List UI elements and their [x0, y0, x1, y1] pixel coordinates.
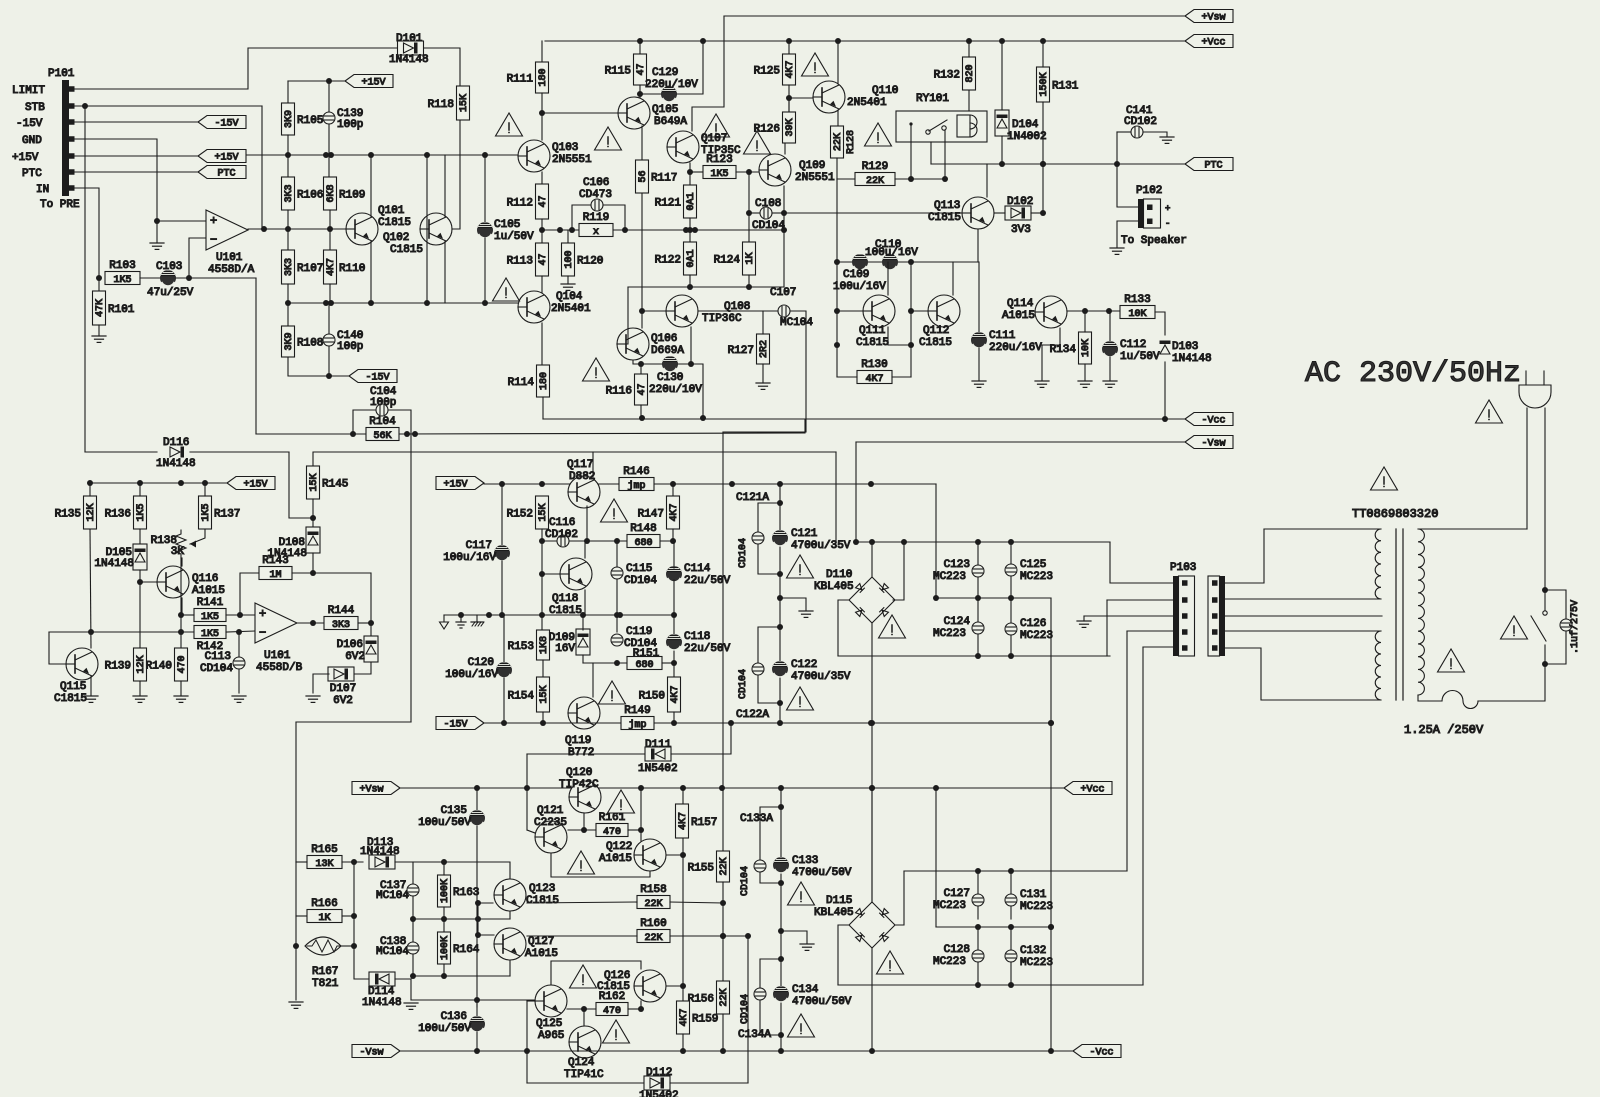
resistor R113 [507, 243, 550, 276]
svg-text:220u/16V: 220u/16V [989, 342, 1042, 354]
junction [720, 933, 726, 939]
svg-text:1K: 1K [318, 913, 330, 924]
svg-text:R154: R154 [508, 691, 535, 703]
svg-text:D116: D116 [163, 437, 189, 449]
junction [777, 595, 783, 601]
junction [700, 415, 706, 421]
wire P103 p4 [1127, 630, 1173, 632]
junction [539, 110, 545, 116]
wire Q102 e [444, 241, 446, 303]
svg-text:PTC: PTC [1204, 161, 1222, 172]
wire D112 feed [527, 1082, 645, 1084]
junction [639, 415, 645, 421]
ground G3 [561, 284, 575, 290]
wire bridge115 right [893, 871, 904, 925]
junction [778, 1048, 784, 1054]
wire R163 top [443, 862, 445, 875]
wire D111 r [671, 723, 731, 754]
wire R128 col down [836, 179, 838, 377]
transistor Q120 [559, 767, 601, 813]
wire R124 bot [748, 275, 750, 287]
diode D111 [638, 739, 678, 775]
wire C129 right [677, 41, 703, 94]
wire D115 bot [871, 948, 873, 1051]
wire D106 bot [353, 662, 371, 674]
wire C117 top [501, 484, 503, 545]
junction [351, 913, 357, 919]
capacitor C136 [418, 1011, 485, 1035]
svg-text:15K: 15K [459, 94, 470, 112]
wire R105 bot [287, 135, 289, 177]
wire C120 t2 [503, 615, 505, 662]
svg-text:TT0869803320: TT0869803320 [1352, 507, 1438, 521]
junction [285, 226, 291, 232]
svg-text:R146: R146 [623, 466, 649, 478]
junction [237, 612, 243, 618]
resistor R126 [754, 112, 797, 143]
wire x723 drop [722, 432, 724, 788]
transistor Q107 [667, 131, 741, 163]
AC plug [1519, 371, 1551, 408]
capacitor C113 [200, 651, 245, 675]
net flag -Vcc low [1073, 1045, 1121, 1059]
svg-text:R145: R145 [322, 479, 348, 491]
svg-text:D103: D103 [1172, 341, 1198, 353]
wire Q118 e [584, 590, 586, 615]
wire R137 top [204, 483, 206, 496]
wire R158 r [670, 902, 723, 903]
warning symbol W18 [788, 882, 815, 905]
wire R163 bot [443, 907, 445, 932]
junction [975, 868, 981, 874]
junction [720, 933, 726, 939]
junction [323, 152, 329, 158]
switch SW1 [1531, 590, 1547, 664]
wire C134c top [760, 959, 781, 988]
wire Q111 e [888, 327, 911, 345]
resistor R158 [637, 884, 670, 910]
resistor R142 [194, 626, 226, 654]
svg-text:C121: C121 [791, 528, 818, 540]
svg-text:+: + [210, 214, 217, 228]
wire xfmr p3 [1225, 615, 1382, 617]
svg-text:Q127: Q127 [528, 936, 554, 948]
wire bridge bot [871, 623, 873, 902]
wire fuse-switch [1478, 664, 1545, 701]
svg-text:R121: R121 [655, 198, 682, 210]
ground G1 [150, 243, 164, 249]
junction [637, 38, 643, 44]
wire P103 p1 [1110, 542, 1173, 583]
wire cap sw top [1545, 590, 1566, 619]
svg-text:4700u/35V: 4700u/35V [791, 671, 851, 683]
wire +Vsw rail [724, 15, 1185, 17]
wire C135 col [476, 788, 478, 810]
junction [908, 342, 914, 348]
svg-text:22u/50V: 22u/50V [684, 575, 731, 587]
junction [777, 720, 783, 726]
junction [746, 210, 752, 216]
transistor Q103 [518, 140, 592, 172]
label MC104b [376, 946, 409, 958]
warning symbol W20 [570, 965, 597, 988]
wire C126 bot [1010, 635, 1012, 656]
svg-text:C135: C135 [441, 805, 467, 817]
capacitor C132 [1005, 945, 1053, 969]
wire C140 bot [328, 346, 330, 376]
svg-text:+: + [259, 607, 266, 621]
wire IN pin [74, 188, 99, 278]
resistor R107 [282, 250, 324, 284]
svg-text:R119: R119 [583, 212, 609, 224]
wire D116 row [85, 451, 157, 453]
wire R162 r [628, 1008, 641, 1010]
wire Q115 e gnd [90, 676, 92, 696]
capacitor C131 [1005, 889, 1053, 913]
junction [441, 916, 447, 922]
svg-text:Q124: Q124 [568, 1057, 595, 1069]
svg-text:100u/16V: 100u/16V [833, 281, 886, 293]
svg-text:D882: D882 [569, 471, 595, 483]
junction [482, 300, 488, 306]
wire xfmr p4 [1225, 630, 1363, 632]
svg-text:MC223: MC223 [1020, 571, 1053, 583]
svg-text:To PRE: To PRE [40, 199, 80, 211]
svg-text:R149: R149 [624, 705, 650, 717]
net flag +Vsw low [352, 782, 400, 796]
junction [778, 928, 784, 934]
wire R167 r [341, 945, 354, 947]
junction [719, 785, 725, 791]
junction [1542, 587, 1548, 593]
svg-text:56K: 56K [373, 431, 391, 442]
junction [499, 481, 505, 487]
svg-text:4K7: 4K7 [785, 60, 796, 78]
wire D102 l [994, 212, 1005, 214]
svg-text:100K: 100K [440, 936, 451, 960]
junction [680, 852, 686, 858]
wire C135 bot [476, 826, 478, 1007]
wire y656 row [838, 655, 1110, 657]
wire x371 d106 [370, 573, 372, 637]
wire Q111 base [837, 310, 863, 312]
svg-text:PTC: PTC [217, 169, 235, 180]
svg-text:R108: R108 [297, 338, 323, 350]
junction [778, 804, 784, 810]
svg-text:2N5551: 2N5551 [552, 154, 592, 166]
junction [524, 785, 530, 791]
wire +Vcc rail [545, 40, 1185, 42]
wire R155 stub [722, 788, 724, 851]
wire xfmr p2 [1225, 598, 1363, 600]
svg-text:CD102: CD102 [1124, 116, 1157, 128]
wire Q104 e [541, 323, 543, 365]
net flag +Vsw [1185, 10, 1233, 24]
wire C112 top [1109, 311, 1111, 341]
resistor R110 [324, 250, 366, 284]
node C133A [740, 813, 773, 825]
label C137 [380, 880, 406, 892]
wire y287 row [628, 286, 784, 288]
wire R103-C103 [140, 277, 160, 279]
capacitor C119 [611, 626, 657, 650]
svg-text:-Vsw: -Vsw [1201, 439, 1225, 450]
resistor R156 [688, 981, 731, 1014]
svg-text:2N5551: 2N5551 [795, 172, 835, 184]
wire R130 r [892, 376, 911, 378]
wire R132 top [968, 41, 970, 57]
svg-text:4700u/50V: 4700u/50V [792, 996, 852, 1008]
capacitor C138 [407, 942, 419, 954]
wire Q102 base [452, 120, 460, 229]
svg-text:C124: C124 [944, 616, 971, 628]
wire R110 bot [329, 284, 331, 303]
warning symbol W22 [877, 951, 904, 974]
svg-text:R147: R147 [638, 509, 664, 521]
wire Q110 e [837, 110, 839, 126]
resistor R157 [676, 804, 718, 838]
svg-text:R107: R107 [297, 263, 323, 275]
junction [687, 169, 693, 175]
svg-text:Q121: Q121 [537, 805, 564, 817]
wire R144 r [358, 622, 371, 624]
svg-text:-Vcc: -Vcc [1201, 416, 1225, 427]
junction [137, 579, 143, 585]
junction [404, 431, 410, 437]
svg-text:C123: C123 [944, 559, 970, 571]
transformer T1 [1352, 507, 1438, 700]
svg-text:6V2: 6V2 [345, 651, 365, 663]
svg-text:4K7: 4K7 [326, 258, 337, 276]
junction [835, 38, 841, 44]
resistor R108 [282, 326, 324, 357]
svg-text:R161: R161 [599, 812, 626, 824]
wire D108 bot [312, 553, 314, 573]
wire R131 bot [1042, 102, 1044, 213]
wire P103 p2 down [1106, 600, 1108, 656]
svg-text:22K: 22K [719, 857, 730, 875]
junction [869, 785, 875, 791]
diode D104 [995, 110, 1047, 143]
svg-text:15K: 15K [539, 685, 550, 703]
wire x911 [910, 262, 912, 377]
svg-text:R128: R128 [846, 130, 857, 154]
connector P103 mate [1208, 576, 1225, 656]
svg-text:Q125: Q125 [536, 1018, 562, 1030]
net flag -Vsw [1185, 436, 1233, 450]
node C122A [736, 709, 769, 721]
wire D104 bot [1001, 136, 1003, 164]
resistor R119 [579, 212, 613, 238]
wire C123 bot [977, 577, 979, 622]
ground G21 [800, 944, 814, 950]
capacitor C118 [666, 631, 731, 655]
junction [933, 595, 939, 601]
junction [638, 785, 644, 791]
svg-text:R136: R136 [105, 509, 131, 521]
junction [670, 481, 676, 487]
wire Q113 e [977, 229, 979, 262]
junction [639, 308, 645, 314]
svg-text:R123: R123 [706, 154, 732, 166]
junction [154, 218, 160, 224]
svg-text:.1uf/275V: .1uf/275V [1569, 600, 1581, 654]
junction [975, 982, 981, 988]
capacitor C114 [666, 563, 731, 587]
svg-text:R152: R152 [507, 509, 533, 521]
junction [1008, 868, 1014, 874]
label CD104 C121 [738, 538, 749, 568]
capacitor C135 [418, 805, 485, 829]
resistor R153 [508, 630, 551, 660]
wire R151 r [662, 662, 674, 664]
junction [580, 612, 586, 618]
diode D107 [328, 667, 356, 707]
wire Q108 base [642, 310, 666, 312]
wire R143 r [292, 572, 370, 574]
svg-text:D102: D102 [1007, 196, 1033, 208]
junction [617, 612, 623, 618]
resistor R134 [1050, 332, 1093, 364]
junction [524, 1048, 530, 1054]
svg-text:220u/10V: 220u/10V [645, 79, 698, 91]
wire -Vsw low bus [400, 1050, 1073, 1052]
svg-text:R103: R103 [109, 260, 135, 272]
junction [720, 900, 726, 906]
junction [88, 629, 94, 635]
bridge rectifier D110 [814, 569, 895, 623]
resistor R122 [655, 242, 698, 275]
svg-text:R139: R139 [105, 661, 131, 673]
wire y262 row [838, 261, 978, 263]
junction [557, 227, 563, 233]
svg-text:Q106: Q106 [651, 333, 677, 345]
wire y311 right [1067, 310, 1120, 312]
svg-text:Q101: Q101 [378, 205, 405, 217]
wire C105 bot [484, 238, 486, 303]
wire Q115 base [49, 632, 66, 664]
svg-text:39K: 39K [785, 118, 796, 136]
svg-text:C1815: C1815 [919, 337, 952, 349]
svg-text:C109: C109 [843, 269, 869, 281]
wire C121 col [779, 484, 781, 723]
svg-text:CD104: CD104 [738, 538, 749, 568]
svg-text:C133: C133 [792, 855, 818, 867]
wire gnd stub C133 [781, 931, 807, 944]
wire C103-U101 [176, 277, 256, 279]
wire C138 bot [412, 954, 414, 976]
svg-text:C105: C105 [494, 219, 520, 231]
wire Q116 base [140, 581, 157, 583]
svg-text:C1815: C1815 [856, 337, 889, 349]
wire R154 bot [542, 712, 544, 723]
junction [671, 660, 677, 666]
junction [539, 538, 545, 544]
svg-text:4K7: 4K7 [669, 503, 680, 521]
svg-text:+15V: +15V [12, 152, 39, 164]
warning symbol W16 [608, 790, 635, 813]
wire R111-Q103 [541, 93, 543, 140]
svg-text:C134A: C134A [738, 1029, 771, 1041]
wire R143 col [240, 573, 259, 615]
resistor R148 [627, 523, 660, 549]
junction [1008, 924, 1014, 930]
svg-text:CD104: CD104 [738, 669, 749, 699]
svg-text:−: − [210, 233, 217, 247]
wire R159 bot [682, 1034, 684, 1051]
junction [638, 361, 644, 367]
junction [285, 300, 291, 306]
wire relay pin1 [910, 124, 912, 179]
capacitor C106 [579, 177, 612, 211]
junction [584, 538, 590, 544]
wire R123 r [736, 171, 759, 173]
wire y598 row [936, 597, 1051, 599]
junction [236, 629, 242, 635]
wire -Vsw bus [856, 441, 1185, 443]
transistor Q116 [157, 566, 225, 598]
resistor R124 [714, 242, 757, 275]
svg-text:R116: R116 [606, 386, 632, 398]
wire R156 bot [722, 1014, 724, 1051]
transistor Q111 [856, 295, 895, 349]
wire +15V mid row [484, 483, 936, 485]
wire y434 bus [256, 433, 366, 435]
wire R127 top2 [762, 311, 764, 334]
svg-text:C1815: C1815 [54, 693, 87, 705]
wire Q113 c [986, 164, 988, 197]
transistor Q105 [618, 97, 687, 129]
svg-text:P101: P101 [48, 68, 75, 80]
junction [1008, 595, 1014, 601]
wire bridge right [893, 542, 904, 600]
junction [869, 1048, 875, 1054]
wire y542 main [856, 541, 1110, 543]
svg-text:100u/50V: 100u/50V [418, 1023, 471, 1035]
wire R129 l [837, 178, 855, 180]
resistor R133 [1120, 294, 1155, 320]
svg-text:RY101: RY101 [916, 93, 949, 105]
label CD104 C133 [740, 866, 751, 896]
svg-text:-15V: -15V [365, 373, 389, 384]
svg-text:U101: U101 [264, 650, 291, 662]
junction [622, 227, 628, 233]
svg-text:R122: R122 [655, 255, 681, 267]
resistor R103 [105, 260, 140, 286]
svg-text:220u/10V: 220u/10V [649, 384, 702, 396]
warning symbol W14 [1371, 467, 1398, 490]
junction [441, 859, 447, 865]
wire C106 r [603, 205, 625, 230]
svg-text:47: 47 [538, 195, 549, 207]
junction [87, 480, 93, 486]
resistor R163 [438, 875, 480, 907]
svg-text:56: 56 [638, 170, 649, 182]
junction [1040, 210, 1046, 216]
svg-text:470: 470 [603, 827, 621, 838]
svg-text:3K9: 3K9 [284, 332, 295, 350]
svg-text:1N5402: 1N5402 [638, 763, 678, 775]
svg-text:3K3: 3K3 [332, 620, 350, 631]
ground G7 [972, 381, 986, 387]
junction [458, 612, 464, 618]
resistor R140 [146, 648, 189, 681]
warning symbol W5 [802, 53, 829, 76]
transistor Q117 [567, 459, 600, 508]
wire fb drop [255, 278, 257, 434]
ground G18 (chassis) [471, 615, 484, 626]
svg-text:R151: R151 [633, 648, 660, 660]
